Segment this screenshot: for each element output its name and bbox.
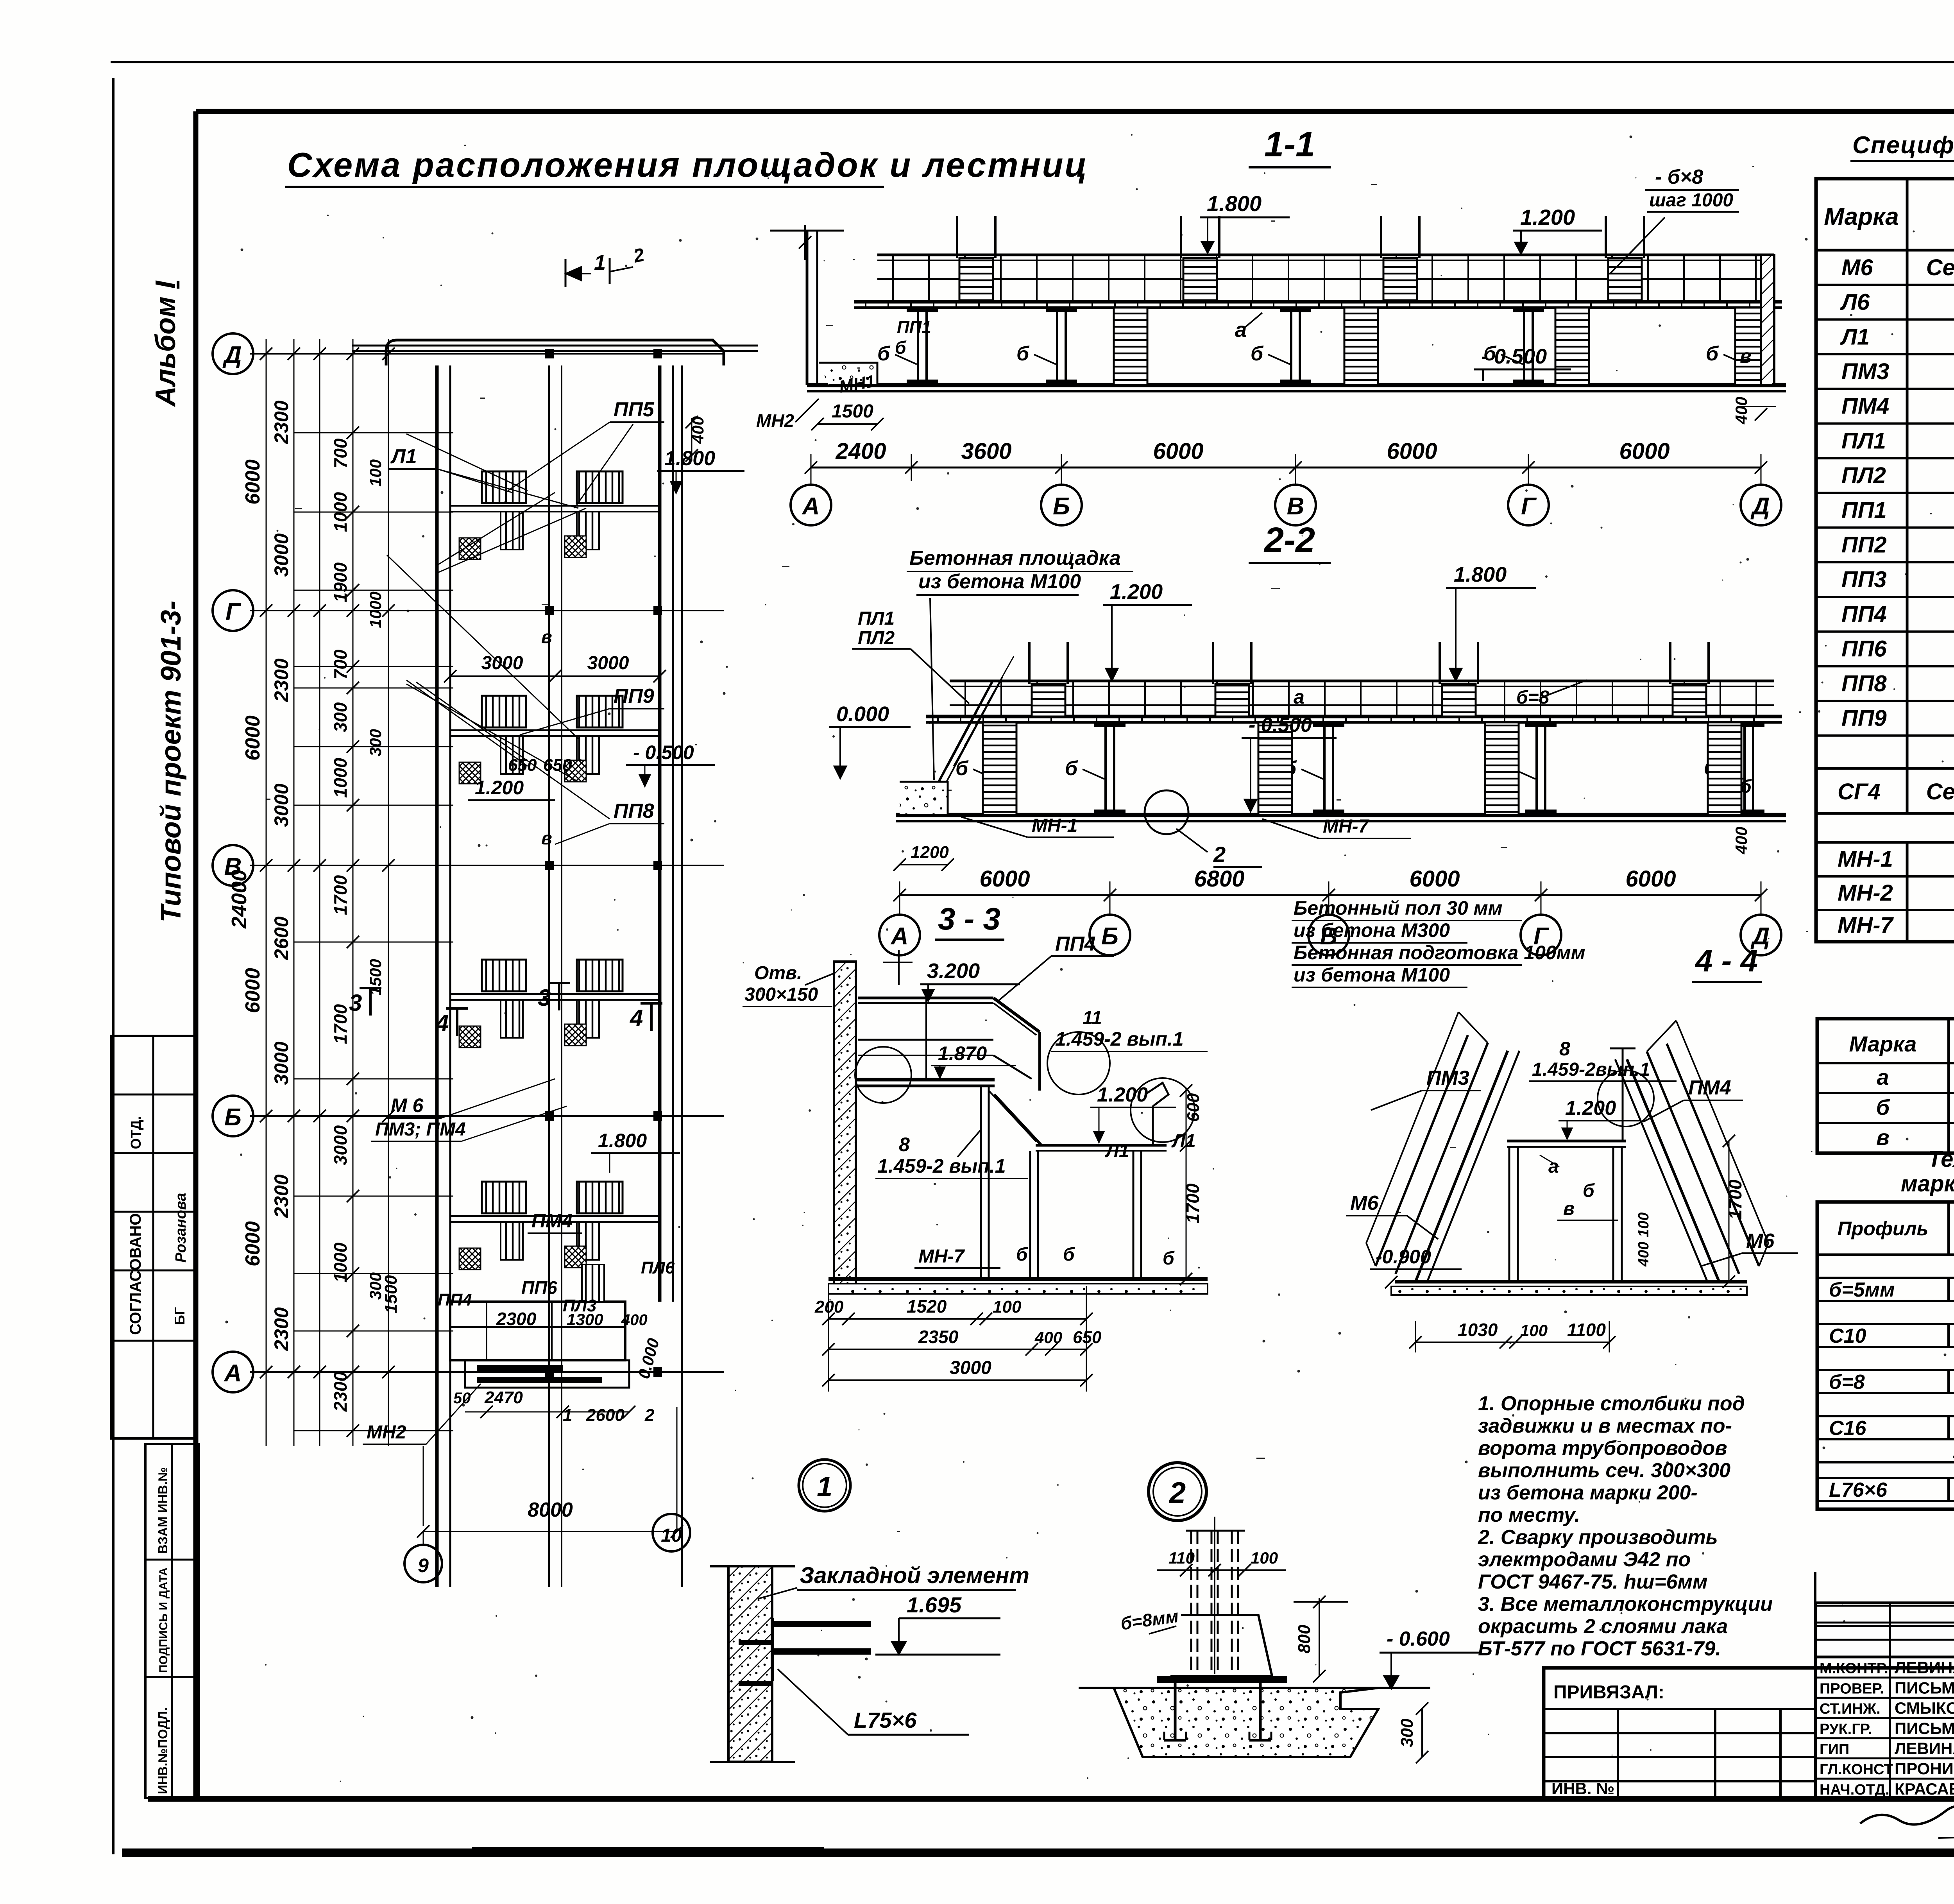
svg-text:ПП1: ПП1 [897,318,931,337]
foundation channels vertical lines [1190,1531,1192,1674]
svg-text:- 0.500: - 0.500 [633,742,694,763]
section 4-4 left railing PM3 parallel to stringer [1396,1043,1488,1274]
section 1-1 dimension line [811,467,1761,469]
plan stair flight right [577,696,623,727]
svg-text:ПП4: ПП4 [438,1290,472,1309]
svg-text:МН-7: МН-7 [1838,912,1894,938]
svg-text:ПП6: ПП6 [1841,636,1887,662]
svg-text:Бетонная площадка: Бетонная площадка [909,547,1121,570]
svg-text:МН-7: МН-7 [1323,816,1370,837]
plan stair flight right [577,960,623,991]
section 2-2 I-beam columns [995,722,997,815]
section 3-3 columns [980,1086,982,1279]
svg-text:из бетона М100: из бетона М100 [918,570,1081,593]
svg-text:- 0.600: - 0.600 [1387,1628,1450,1650]
svg-text:50: 50 [453,1390,471,1407]
svg-text:Розанова: Розанова [173,1193,189,1263]
svg-text:11: 11 [1083,1008,1102,1028]
svg-text:ПП4: ПП4 [1055,933,1096,955]
svg-text:2470: 2470 [484,1388,523,1407]
plan center rail lines [548,365,550,1587]
title block outer box [1544,1668,1954,1799]
foundation trapezoid b8mm [1170,1615,1272,1676]
svg-text:- б×8: - б×8 [1655,166,1703,188]
svg-text:6800: 6800 [1194,866,1244,892]
svg-text:1.459-2 вып.1: 1.459-2 вып.1 [877,1155,1006,1177]
svg-text:1.200: 1.200 [1520,205,1575,229]
title block signature column grid [1814,1603,1817,1799]
section 3-3 lower deck [1036,1144,1167,1147]
plan cut mark 1-2 above [565,259,567,287]
svg-text:б: б [1876,1095,1890,1119]
spec table empty row and sg4 row [1816,767,1954,770]
svg-text:б: б [1706,342,1719,365]
svg-text:ПП2: ПП2 [1841,532,1887,557]
svg-text:2300: 2300 [496,1309,537,1329]
section 2-2 axis circles [899,895,900,915]
svg-text:L75×6: L75×6 [854,1708,917,1732]
svg-text:а: а [1877,1065,1889,1089]
section 4-4 left inclined stair M6 [1415,1051,1508,1282]
plan bottom corner structure [450,1302,625,1360]
section 1-1 floor double line [807,383,1786,387]
spec table outer grid [1816,179,1954,942]
svg-text:ПП1: ПП1 [1841,498,1887,523]
plan dim 3000 3000 mid [450,675,660,677]
detail circle 2 [1149,1463,1206,1521]
svg-text:Отв.: Отв. [754,963,802,983]
svg-text:СГ4: СГ4 [1838,779,1881,804]
svg-text:2400: 2400 [835,439,886,464]
svg-text:б: б [1063,1244,1075,1265]
svg-text:выполнить сеч. 300×300: выполнить сеч. 300×300 [1478,1459,1730,1482]
svg-text:Л1: Л1 [1105,1141,1129,1161]
svg-text:1.200: 1.200 [475,777,524,799]
section 1-1 left wall top tick [804,225,806,260]
svg-text:ГОСТ 9467-75. hш=6мм: ГОСТ 9467-75. hш=6мм [1478,1571,1707,1593]
section 4-4 vertical dim 1700 [1729,1141,1730,1282]
svg-text:1: 1 [594,251,606,274]
section 2-2 mid rail [950,704,1774,706]
plan stair flight left [482,1182,526,1213]
plan concrete hatch patch left [459,1026,481,1048]
section 3-3 bottom dims [828,1318,1086,1320]
svg-text:3000: 3000 [481,653,523,673]
svg-text:400: 400 [1034,1328,1062,1347]
plan stair stub left [501,1222,523,1260]
section 3-3 deck lines [856,1078,995,1082]
svg-text:100: 100 [1251,1549,1278,1567]
svg-text:ПЛ2: ПЛ2 [1841,463,1886,488]
svg-text:1.800: 1.800 [664,447,715,470]
section 2-2 upper stair flights [1032,684,1065,716]
svg-text:1: 1 [817,1471,832,1503]
svg-text:М.КОНТР.: М.КОНТР. [1820,1660,1888,1677]
svg-text:8000: 8000 [528,1499,573,1521]
plan landing lines [450,729,660,731]
section 3-3 small railing flag right [1145,1083,1168,1106]
svg-text:из бетона М100: из бетона М100 [1294,964,1450,986]
svg-text:МН-1: МН-1 [1838,847,1893,872]
svg-text:Техническая спецификация с: Техническая спецификация стали класса с … [1928,1146,1954,1172]
svg-text:Альбом I: Альбом I [150,280,181,407]
svg-text:-0.900: -0.900 [1376,1246,1431,1268]
steel spec table grid [1817,1202,1954,1509]
upper margin stamp box soglasovano [111,1036,196,1438]
svg-text:М 6: М 6 [391,1094,424,1116]
svg-text:задвижки и в местах по-: задвижки и в местах по- [1478,1415,1732,1437]
svg-text:ПП9: ПП9 [1841,706,1887,731]
plan landing lines [450,505,660,507]
svg-text:ПП9: ПП9 [614,685,654,708]
section 2-2 dimension line [900,894,1761,896]
svg-text:А: А [224,1360,242,1387]
svg-text:б: б [1016,1244,1028,1265]
sheet frame outer lines [111,61,1954,63]
svg-text:Б: Б [1101,923,1118,950]
plan stair flight right [577,1182,623,1213]
svg-text:1.800: 1.800 [1454,563,1507,586]
svg-text:ПЛ1: ПЛ1 [858,608,895,629]
svg-text:ПОДПИСЬ И ДАТА: ПОДПИСЬ И ДАТА [157,1567,170,1673]
svg-text:700: 700 [330,438,351,468]
svg-text:Л6: Л6 [1840,290,1870,315]
svg-text:Марка: Марка [1824,203,1899,230]
svg-text:а: а [1548,1156,1559,1177]
section 1-1 top rail [877,254,1774,256]
svg-text:ПРОВЕР.: ПРОВЕР. [1820,1680,1884,1697]
svg-text:1500: 1500 [381,1275,401,1313]
svg-text:8: 8 [1559,1038,1570,1060]
section 3-3 vertical dims right [1186,1089,1187,1279]
section 1-1 railing posts [892,255,894,302]
spec table metal element rows [1816,875,1954,878]
section 3-3 platform box rails [858,997,993,999]
svg-text:Типовой проект 901-3-: Типовой проект 901-3- [156,601,187,922]
svg-text:А: А [890,923,909,950]
plan axis horizontal lines [250,353,724,355]
svg-text:МН-7: МН-7 [918,1246,965,1267]
svg-text:1700: 1700 [330,875,351,915]
svg-text:ПЛ1: ПЛ1 [1841,428,1886,453]
svg-text:Л1: Л1 [390,445,417,468]
svg-text:Схема расположения площадок: Схема расположения площадок и лестниц [287,145,1088,184]
svg-text:Профиль: Профиль [1838,1218,1929,1239]
svg-text:24000: 24000 [227,870,251,929]
svg-text:СМЫКОВА: СМЫКОВА [1895,1699,1954,1717]
svg-text:2600: 2600 [270,916,292,960]
svg-text:БТ-577 по ГОСТ 5631-79.: БТ-577 по ГОСТ 5631-79. [1478,1637,1721,1660]
svg-text:2350: 2350 [918,1327,959,1347]
svg-text:б=5мм: б=5мм [1829,1279,1895,1301]
svg-text:4: 4 [435,1010,449,1036]
svg-text:3 - 3: 3 - 3 [938,901,1000,936]
svg-text:650: 650 [1073,1328,1102,1347]
plan stair flight left [482,471,526,503]
svg-text:а: а [1235,318,1247,342]
svg-text:6000: 6000 [242,1221,264,1266]
plan stair stub left [501,1000,523,1038]
svg-text:1.870: 1.870 [938,1042,987,1064]
plan right wall double line [658,365,662,1302]
svg-text:2300: 2300 [270,1307,292,1351]
svg-text:1200: 1200 [911,843,949,862]
svg-text:Серия 1.459-2 вып.2: Серия 1.459-2 вып.2 [1926,255,1954,280]
svg-text:3000: 3000 [270,783,292,827]
svg-text:650: 650 [508,756,537,775]
title block empty top rows left [1815,1601,1954,1604]
section 2-2 concrete block at A [900,782,948,815]
svg-text:6000: 6000 [242,968,264,1013]
svg-text:СОГЛАСОВАНО: СОГЛАСОВАНО [127,1213,144,1335]
svg-text:0.000: 0.000 [836,702,889,726]
svg-text:100: 100 [993,1297,1022,1317]
plan axis circle 10 line [676,1514,678,1531]
section 1-1 deck brick ticks [865,302,866,308]
section 2-2 deck brick ticks [937,716,939,722]
svg-text:М6: М6 [1350,1192,1379,1214]
plan stair stub right [577,736,599,774]
svg-text:окрасить 2 слоями лака: окрасить 2 слоями лака [1478,1615,1728,1638]
svg-text:ПРОНИН: ПРОНИН [1895,1759,1954,1778]
svg-text:- 0.500: - 0.500 [1481,345,1547,368]
section 4-4 central platform [1507,1140,1626,1143]
svg-text:600: 600 [1184,1093,1203,1122]
svg-text:ворота трубопроводов: ворота трубопроводов [1478,1437,1727,1460]
svg-text:1. Опорные столбики под: 1. Опорные столбики под [1478,1392,1745,1415]
svg-text:1000: 1000 [330,758,351,798]
section 1-1 upper stair flights [959,258,993,302]
foundation base plate [1157,1676,1287,1683]
svg-text:Бетонная подготовка 100мм: Бетонная подготовка 100мм [1294,942,1585,964]
section 4-4 bottom dims [1415,1342,1609,1343]
svg-text:1030: 1030 [1458,1320,1498,1340]
svg-text:3000: 3000 [950,1358,991,1378]
svg-text:300×150: 300×150 [744,984,818,1005]
plan stair stub left [501,736,523,774]
svg-text:в: в [1563,1198,1575,1219]
svg-text:МН-2: МН-2 [1838,880,1893,906]
plan concrete hatch patch right [565,1246,586,1268]
svg-text:б: б [895,337,907,358]
section 1-1 deck double line [854,300,1782,304]
section 3-3 right slant railing panel [993,998,1040,1032]
svg-text:1.695: 1.695 [907,1592,962,1617]
svg-text:ПМ4: ПМ4 [531,1210,573,1232]
svg-text:1.800: 1.800 [1207,191,1262,216]
svg-text:электродами Э42 по: электродами Э42 по [1478,1548,1691,1571]
plan concrete hatch patch right [565,760,586,782]
svg-text:L76×6: L76×6 [1829,1479,1888,1501]
svg-text:ИНВ.№ПОДЛ.: ИНВ.№ПОДЛ. [156,1707,170,1794]
svg-text:Д: Д [222,342,242,369]
svg-text:2300: 2300 [270,1174,292,1218]
svg-text:в: в [1740,345,1752,367]
svg-text:Уголок равнополочный ГОСТ: Уголок равнополочный ГОСТ 8509-72 [1952,1439,1954,1463]
section 1-1 lower stair flights [1114,308,1147,385]
detail embedded element wall with hatch [728,1566,772,1762]
svg-text:6000: 6000 [1387,439,1437,464]
plan bottom embedded bars MN2 [477,1365,563,1372]
svg-text:1000: 1000 [366,591,385,628]
svg-text:1000: 1000 [330,1242,351,1282]
svg-text:ПП3: ПП3 [1841,567,1887,592]
plan landing lines [450,1215,660,1217]
foundation anchor bolts [1174,1683,1177,1740]
section 1-1 left wall and concrete base [806,231,809,385]
svg-text:ПМ4: ПМ4 [1841,394,1889,419]
section 2-2 top rail [950,680,1774,682]
svg-text:2-2: 2-2 [1263,521,1315,560]
section 4-4 ground line [1395,1280,1747,1284]
svg-text:Спецификация элементов к сх: Спецификация элементов к схеме расположе… [1852,132,1954,159]
svg-text:Б: Б [224,1104,242,1131]
svg-text:6000: 6000 [1409,866,1460,892]
plan concrete hatch patch right [565,536,586,557]
foundation top dim 410 100 [1157,1569,1286,1571]
section 1-1 axis circles [811,467,812,485]
svg-text:СТ.ИНЖ.: СТ.ИНЖ. [1820,1701,1881,1717]
bottom heavy black bar [122,1848,1954,1857]
section 4-4 center tall post [1622,1048,1624,1140]
svg-text:6000: 6000 [1625,866,1676,892]
section 2-2 inclined railing PL1 PL2 [939,681,993,782]
svg-text:3000: 3000 [330,1125,351,1165]
svg-text:ПМ4: ПМ4 [1688,1076,1731,1099]
plan axis circle 9 [404,1545,442,1582]
svg-text:1500: 1500 [832,401,873,422]
svg-text:б: б [1065,757,1078,780]
embedded element plates [773,1621,871,1627]
section 4-4 right railing PM4 parallel to stringer [1647,1051,1739,1274]
svg-text:110: 110 [1168,1549,1195,1567]
foundation dim 300 [1421,1709,1423,1757]
svg-text:400: 400 [621,1311,648,1329]
svg-text:4: 4 [630,1005,643,1031]
svg-text:б: б [1251,342,1264,365]
svg-text:б=8: б=8 [1829,1371,1865,1394]
svg-text:6000: 6000 [979,866,1030,892]
svg-text:1700: 1700 [330,1004,351,1044]
detail circle 1 [799,1460,850,1511]
section 2-2 railing posts [964,681,966,716]
svg-text:1700: 1700 [1183,1183,1203,1223]
svg-text:из бетона марки 200-: из бетона марки 200- [1478,1481,1698,1504]
svg-text:в: в [541,828,552,848]
lower margin stamp box inv no podpis [145,1444,199,1798]
svg-text:3: 3 [349,990,362,1016]
section 3-3 wall hatched [834,962,856,1290]
svg-text:б: б [1740,776,1752,797]
section 3-3 floor [828,1277,1208,1281]
svg-text:400: 400 [1635,1242,1652,1267]
svg-text:2600: 2600 [586,1406,624,1425]
svg-text:6000: 6000 [242,459,264,505]
plan cut marks 3 and 4 [369,988,372,1016]
svg-text:б=8: б=8 [1516,687,1550,708]
plan left wall double line [435,365,439,1587]
svg-text:3000: 3000 [587,653,629,673]
svg-text:ПИСЬМАН: ПИСЬМАН [1895,1678,1954,1697]
plan dimension chain lines vertical [266,339,267,1446]
svg-text:1500: 1500 [366,959,385,995]
svg-text:ПИСЬМАН: ПИСЬМАН [1895,1719,1954,1737]
svg-text:1.200: 1.200 [1565,1097,1616,1119]
section 3-3 detail circles [855,1047,911,1103]
svg-text:ЛЕВИНА: ЛЕВИНА [1895,1659,1954,1677]
svg-text:ЛЕВИНА: ЛЕВИНА [1895,1739,1954,1758]
section 3-3 stair flight diagonal [994,1094,1041,1145]
svg-text:2: 2 [1168,1476,1186,1510]
plan intermediate tick lines [294,432,453,433]
svg-text:1.800: 1.800 [598,1130,647,1152]
svg-text:1.459-2вып.1: 1.459-2вып.1 [1532,1059,1650,1080]
svg-text:б: б [1016,342,1030,365]
title block role rows [1815,1657,1954,1659]
svg-text:1.200: 1.200 [1110,580,1163,604]
svg-text:ПП4: ПП4 [1841,602,1887,627]
svg-text:шаг 1000: шаг 1000 [1649,190,1733,211]
scan noise dots [225,134,1954,1782]
svg-text:ВЗАМ ИНВ.№: ВЗАМ ИНВ.№ [156,1467,170,1554]
section 2-2 detail circle 2 on column [1145,790,1188,834]
section 1-1 I-beam columns [917,308,919,385]
svg-text:С16: С16 [1829,1417,1866,1440]
svg-text:3. Все металлоконструкции: 3. Все металлоконструкции [1478,1593,1773,1616]
svg-text:3.200: 3.200 [927,959,980,983]
plan stair stub left [501,512,523,550]
svg-text:Г: Г [1521,493,1537,520]
foundation dim 800 [1319,1598,1320,1676]
section 4-4 right inclined stair M6 [1627,1059,1719,1282]
svg-text:1700: 1700 [1725,1179,1745,1220]
svg-text:1300: 1300 [567,1310,603,1329]
svg-text:из бетона М300: из бетона М300 [1294,919,1450,941]
svg-text:300: 300 [330,702,351,732]
svg-text:МН2: МН2 [756,410,794,431]
svg-text:Д: Д [1750,493,1770,520]
plan concrete hatch patch right [565,1024,586,1046]
svg-text:100: 100 [1520,1321,1548,1340]
plan top cap slab [386,340,724,365]
plan outer right line [681,365,683,1587]
svg-text:ПП8: ПП8 [1841,671,1887,696]
section 2-2 floor double line [896,813,1786,817]
svg-text:ПМ3; ПМ4: ПМ3; ПМ4 [375,1119,466,1140]
svg-text:А: А [802,493,820,520]
svg-text:М6: М6 [1746,1230,1775,1252]
svg-text:Б: Б [1053,493,1070,520]
svg-text:ОТД.: ОТД. [128,1116,144,1149]
svg-text:4 - 4: 4 - 4 [1695,943,1758,978]
svg-text:1-1: 1-1 [1264,125,1315,164]
privyazal box grid [1617,1709,1619,1799]
svg-text:Л1: Л1 [1840,324,1870,349]
section 2-2 deck double line [926,715,1782,718]
svg-text:в: в [1876,1125,1890,1150]
plan axis circles letters [213,333,253,374]
svg-text:10: 10 [661,1525,682,1546]
svg-text:ГЛ.КОНСТ: ГЛ.КОНСТ [1820,1761,1893,1778]
section 1-1 concrete block at A [819,363,877,385]
svg-text:Марка: Марка [1849,1032,1917,1056]
svg-text:1520: 1520 [907,1296,947,1317]
svg-text:2300: 2300 [270,400,292,444]
svg-text:2300: 2300 [270,658,292,702]
plan concrete hatch patch left [459,538,481,559]
svg-text:3: 3 [538,985,551,1011]
svg-text:2. Сварку производить: 2. Сварку производить [1478,1526,1718,1549]
